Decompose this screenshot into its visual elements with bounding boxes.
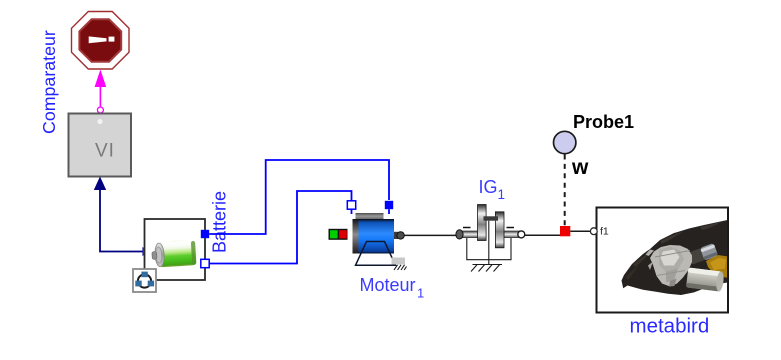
dark motor cylinder with silver cap — [688, 243, 718, 265]
svg-text:Probe1: Probe1 — [573, 112, 634, 132]
battery output triangle connector — [143, 248, 149, 255]
red connection node — [560, 226, 570, 236]
motor shaft — [394, 232, 398, 239]
navy wire battery->VI — [100, 189, 143, 252]
svg-text:Batterie: Batterie — [210, 191, 230, 253]
terminate stop-sign outer octagon — [72, 12, 130, 70]
magenta signal wire VI->stop — [99, 84, 101, 107]
white dash mark inside stop sign — [89, 36, 107, 43]
left gear wheel — [478, 205, 487, 241]
gear mesh bar — [484, 216, 499, 220]
metabird box border redraw — [597, 208, 729, 313]
left flange_a filled circle — [456, 230, 463, 239]
metabird block box — [597, 208, 729, 313]
svg-text:Moteur: Moteur — [360, 275, 416, 295]
wire gear to node — [525, 234, 561, 236]
right gear wheel — [495, 212, 504, 248]
svg-text:w: w — [571, 156, 589, 179]
magenta open circle port at VI top — [97, 107, 103, 113]
terminate stop-sign inner octagon — [79, 19, 121, 62]
motor ground pad — [392, 258, 406, 265]
Batterie block box — [145, 219, 206, 280]
bird head black body — [622, 220, 729, 295]
svg-text:IG: IG — [479, 177, 498, 197]
wire battery pin_p to motor pin_ap — [209, 160, 389, 234]
navy input arrow into VI — [94, 177, 106, 191]
wire motor flange to gear — [404, 234, 456, 236]
motor support trapezoid — [356, 242, 396, 266]
motor pin stubs — [351, 209, 353, 214]
silver gearbox bracket — [650, 245, 692, 287]
gear tick marks — [463, 227, 471, 229]
gear ground hatching — [471, 265, 502, 272]
VI comparator block — [69, 114, 132, 177]
Moteur1 DC motor body — [356, 213, 384, 220]
Probe1 sensor circle — [554, 131, 576, 153]
wire battery pin_n to motor pin_an — [209, 191, 351, 264]
right flange shaft — [504, 231, 522, 238]
amber patch — [706, 255, 728, 278]
wire node to f1 — [570, 230, 592, 232]
fur texture streaks — [660, 231, 684, 244]
motor pin_an open square — [347, 201, 355, 209]
f1 flange connector — [590, 228, 597, 235]
metabird photo — [622, 220, 729, 295]
battery pin_n open square — [201, 259, 209, 267]
motor pin_ap filled square — [385, 201, 393, 209]
chrome cylinder — [686, 268, 725, 292]
svg-text:VI: VI — [95, 141, 115, 162]
motor ground hatching — [394, 265, 407, 270]
motor indicator lamp green/red — [329, 229, 348, 240]
magenta arrowhead — [95, 70, 107, 88]
battery pin_p filled square — [201, 230, 209, 238]
svg-text:1: 1 — [417, 286, 424, 301]
probe dashed measurement line — [564, 155, 566, 226]
svg-text:f1: f1 — [600, 226, 609, 238]
svg-text:1: 1 — [498, 187, 506, 202]
battery image — [151, 239, 200, 269]
gear support frame — [467, 221, 511, 265]
svg-text:metabird: metabird — [630, 315, 710, 338]
bus connector icon on battery — [133, 269, 156, 292]
right flange_b open circle — [518, 231, 525, 238]
left flange shaft — [457, 231, 478, 238]
svg-text:Comparateur: Comparateur — [39, 30, 59, 134]
